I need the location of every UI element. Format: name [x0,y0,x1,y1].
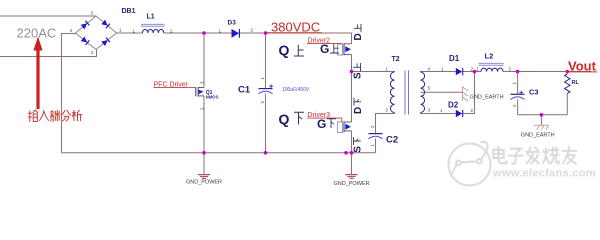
svg-text:2: 2 [512,104,517,107]
svg-text:L2: L2 [485,51,494,60]
wire top rail bridge to L1 [117,32,143,34]
transformer T2 core [405,71,409,115]
diode D2 [456,110,463,117]
svg-text:G: G [320,42,329,56]
svg-text:www.elecfans.com: www.elecfans.com [492,168,596,180]
wire halfbridge node to T2 pin1 [352,71,395,74]
wire Driver2 gate lead (red underline) [307,42,342,44]
svg-text:C3: C3 [529,87,539,96]
inductor L1 winding [143,29,164,33]
wire T2 pin4 to D1 [421,71,456,74]
svg-text:T2: T2 [392,56,400,63]
wire C2 bottom lead [375,139,377,153]
svg-text:2: 2 [471,108,474,113]
bridge diode top-right [101,20,110,29]
bridge diode bottom-left [81,36,90,45]
capacitor C3 plates [511,91,525,100]
svg-text:Vout: Vout [568,58,597,73]
transistor Q1 NMOS symbol [196,87,204,97]
wire AC neutral bottom [0,50,97,57]
wire D1 cathode to junction [463,71,475,73]
wire GND_POWER stem left [203,153,205,174]
svg-text:1: 1 [441,66,444,71]
net 380VDC underline [267,32,323,34]
pin label D-upper rotated [353,24,364,41]
svg-text:5: 5 [428,86,431,91]
bridge diode bottom-right [101,38,110,47]
TEXTS-GROUP [17,8,598,187]
svg-text:4: 4 [428,67,431,72]
wire GND_EARTH stem bottom [540,115,542,125]
resistor RL zigzag [565,74,570,94]
svg-text:Q: Q [279,42,290,58]
transformer T2 secondary winding [421,72,425,113]
svg-text:3: 3 [91,11,94,16]
node junction halfbridge output [350,70,354,74]
svg-text:2: 2 [370,125,375,128]
svg-text:D: D [353,33,364,40]
svg-text:380VDC: 380VDC [271,19,320,34]
wire C1 top lead [265,33,267,88]
svg-text:100uF/450V: 100uF/450V [282,87,310,93]
ground GND_POWER symbol left [198,175,210,179]
ground GND_EARTH symbol at T2 center tap [462,86,468,101]
svg-text:GND_EARTH: GND_EARTH [470,94,504,100]
PARTS-GROUP [76,16,571,178]
net Vout underline [566,71,598,73]
diode D3 [232,29,240,38]
bridge diode top-left [81,21,90,30]
svg-text:D: D [353,107,364,114]
wire GND_POWER stem right [351,153,353,174]
capacitor C1 plates [259,84,274,94]
wire output bottom [518,114,568,116]
svg-text:2: 2 [386,108,389,113]
wire AC line top [0,15,96,17]
wire RL bottom lead [566,93,568,115]
WIRES-GROUP [0,16,591,174]
svg-text:C1: C1 [238,84,251,95]
svg-text:2: 2 [260,101,265,104]
wire bridge negative to left corner [62,34,76,153]
inductor L2 winding [481,68,503,71]
svg-text:4: 4 [70,28,73,33]
svg-text:1: 1 [386,67,389,72]
wire D2 cathode up to junction [463,72,475,114]
svg-text:D2: D2 [448,101,459,110]
wire Q1 source to rail [203,96,205,153]
pin label D-lower rotated [353,98,364,114]
svg-text:2: 2 [251,28,254,33]
svg-text:1: 1 [260,77,265,80]
pin label S-lower rotated [353,137,364,153]
wire RL top lead [566,72,568,74]
svg-text:GND_POWER: GND_POWER [186,180,222,186]
annotation text input-analysis (hand-drawn CJK: 输入端分析) [28,110,82,122]
svg-text:L1: L1 [147,13,155,20]
node junction GND_EARTH tap [540,113,544,117]
svg-text:S: S [353,72,364,79]
svg-text:RL: RL [572,80,580,86]
node junction C1 bottom on rail [264,151,268,155]
wire T2 pin2 to C2 [376,113,395,134]
wire PFC driver gate lead (red underline) [154,87,196,89]
svg-text:1: 1 [119,28,122,33]
bridge rectifier DB1 diamond [76,16,117,50]
svg-text:220AC: 220AC [17,26,57,41]
inductor L2 core lines [479,63,504,65]
svg-text:DB1: DB1 [122,8,136,15]
svg-text:S: S [353,146,364,153]
node junction Q1 drain on rail [202,31,206,35]
svg-text:C2: C2 [386,134,398,145]
svg-text:D1: D1 [449,54,460,63]
wire T2 pin5 center tap to earth [421,91,463,93]
transistor Q-lower MOSFET symbol [338,121,352,132]
svg-text:GND_EARTH: GND_EARTH [521,132,555,138]
node junction rail end left of FET [344,151,348,155]
wire lower FET source to rail [351,131,353,153]
svg-text:Q: Q [279,111,290,127]
pin label S-upper rotated [353,63,364,79]
svg-text:2: 2 [91,50,94,55]
wire junction to L2 [475,71,482,73]
svg-text:NMOS: NMOS [206,94,219,99]
inductor L1 core lines [141,24,165,26]
svg-text:G: G [317,117,326,131]
svg-text:1: 1 [370,144,375,147]
wire halfbridge mid stem [351,55,353,122]
wire Driver3 gate lead (red underline with jog) [307,118,342,122]
WATERMARK-GROUP (decorative, not labelled further) [449,142,596,186]
wire top rail L1 to halfbridge corner [164,33,352,44]
svg-text:D3: D3 [228,19,237,26]
node junction C1 top on rail [264,31,268,35]
wire T2 pin3 to D2 [421,113,456,114]
diode D1 [456,68,463,75]
svg-text:1: 1 [512,82,517,85]
svg-text:2: 2 [509,66,512,71]
ground GND_POWER symbol right [345,175,357,179]
ground GND_EARTH symbol bottom output [534,125,549,129]
wire L2 to Vout end [503,71,591,73]
wire C1 bottom lead [265,94,267,153]
node junction Q1 source on rail [202,151,206,155]
capacitor C2 plates [369,134,383,139]
node junction RL top Vout [566,70,570,74]
wire C3 bottom lead [517,99,519,115]
transistor Q-upper MOSFET symbol [338,43,352,55]
transformer T2 primary winding [390,72,394,113]
svg-text:3: 3 [428,108,431,113]
wire C3 top lead [517,72,519,95]
svg-text:GND_POWER: GND_POWER [333,181,369,187]
node junction lower FET source ground [350,151,354,155]
node junction C3 top [516,70,520,74]
svg-text:1: 1 [477,66,480,71]
annotation red arrow [33,37,42,110]
svg-text:1: 1 [440,108,443,113]
wire bottom ground rail [62,152,376,154]
wire Q1 drain [203,33,205,88]
node junction D1 D2 L2 [473,70,477,74]
